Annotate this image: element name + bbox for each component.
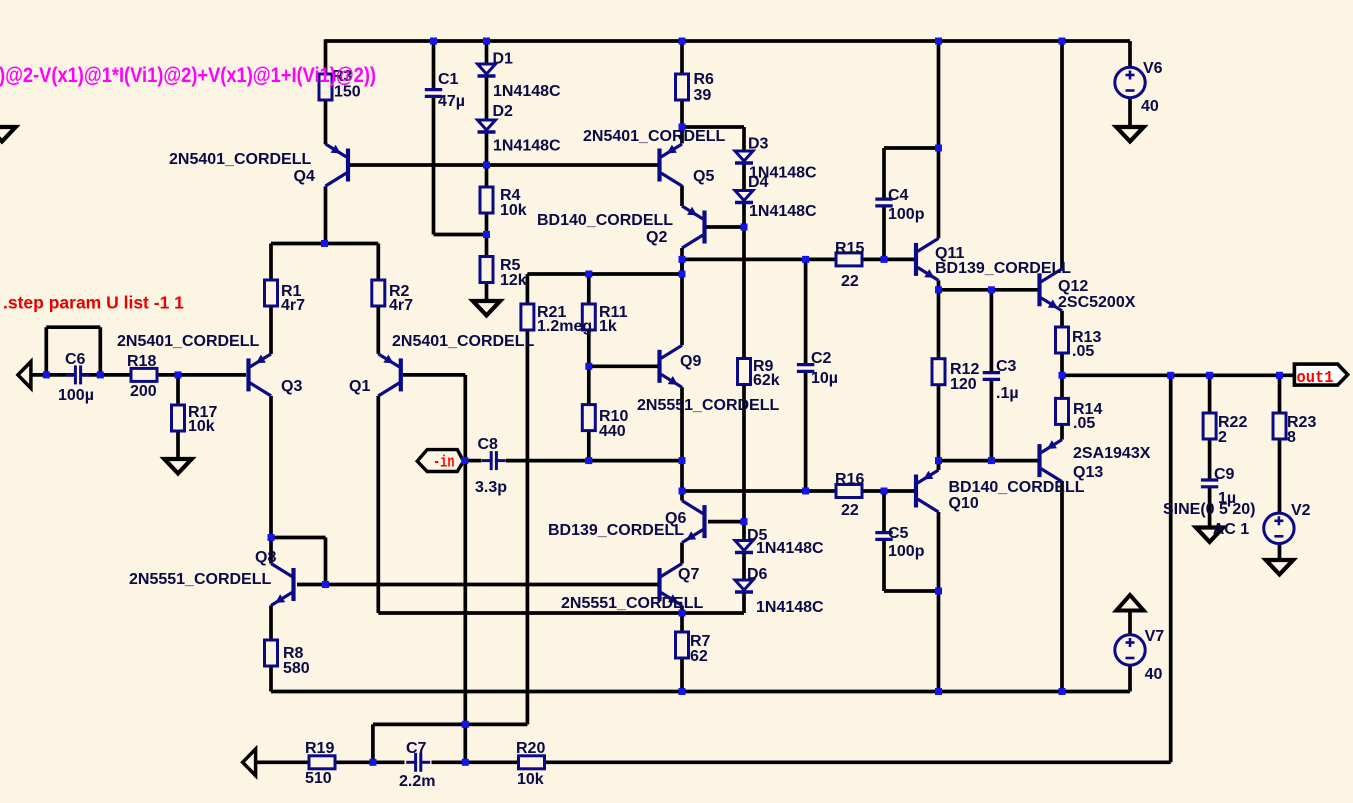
svg-text:.05: .05 [1073, 415, 1095, 432]
svg-text:D3: D3 [748, 136, 769, 153]
svg-text:Q7: Q7 [678, 566, 699, 583]
svg-text:2N5401_CORDELL: 2N5401_CORDELL [117, 333, 260, 350]
svg-text:2SC5200X: 2SC5200X [1058, 294, 1136, 311]
svg-text:100p: 100p [888, 543, 925, 560]
svg-text:2N5551_CORDELL: 2N5551_CORDELL [561, 595, 704, 612]
svg-text:2: 2 [1218, 429, 1227, 446]
svg-text:Q12: Q12 [1058, 278, 1088, 295]
svg-text:580: 580 [283, 660, 310, 677]
svg-text:)@2-V(x1)@1*I(Vi1)@2)+V(x1)@1+: )@2-V(x1)@1*I(Vi1)@2)+V(x1)@1+I(Vi1)@2)) [0, 64, 376, 87]
svg-text:2N5401_CORDELL: 2N5401_CORDELL [169, 151, 312, 168]
svg-text:2.2m: 2.2m [399, 773, 435, 790]
svg-text:1N4148C: 1N4148C [493, 83, 561, 100]
svg-text:R20: R20 [516, 740, 545, 757]
svg-text:10k: 10k [188, 418, 215, 435]
svg-text:22: 22 [841, 502, 859, 519]
svg-text:R16: R16 [835, 471, 864, 488]
svg-text:.1µ: .1µ [996, 385, 1019, 402]
svg-text:1N4148C: 1N4148C [756, 599, 824, 616]
svg-text:Q2: Q2 [646, 229, 667, 246]
svg-text:Q10: Q10 [949, 495, 979, 512]
svg-text:200: 200 [130, 383, 157, 400]
svg-text:440: 440 [599, 423, 626, 440]
svg-text:2N5551_CORDELL: 2N5551_CORDELL [637, 397, 780, 414]
svg-text:10k: 10k [500, 202, 527, 219]
svg-text:100p: 100p [888, 206, 925, 223]
svg-text:12k: 12k [500, 272, 527, 289]
svg-text:1N4148C: 1N4148C [756, 540, 824, 557]
svg-text:100µ: 100µ [58, 387, 94, 404]
svg-text:Q4: Q4 [294, 168, 315, 185]
svg-text:39: 39 [694, 87, 712, 104]
svg-text:Q3: Q3 [281, 378, 302, 395]
svg-text:BD139_CORDELL: BD139_CORDELL [935, 260, 1071, 277]
svg-text:3.3p: 3.3p [475, 479, 507, 496]
svg-text:2N5401_CORDELL: 2N5401_CORDELL [583, 128, 726, 145]
svg-text:C2: C2 [811, 350, 832, 367]
svg-text:BD140_CORDELL: BD140_CORDELL [949, 479, 1085, 496]
svg-text:D4: D4 [748, 174, 769, 191]
svg-text:R18: R18 [127, 353, 156, 370]
svg-text:40: 40 [1145, 666, 1163, 683]
svg-text:C7: C7 [406, 740, 427, 757]
svg-text:2N5401_CORDELL: 2N5401_CORDELL [392, 333, 535, 350]
svg-text:1N4148C: 1N4148C [749, 203, 817, 220]
svg-text:62k: 62k [753, 372, 780, 389]
svg-text:R6: R6 [694, 71, 715, 88]
svg-text:SINE(0 5 20): SINE(0 5 20) [1163, 501, 1255, 518]
svg-text:Q9: Q9 [680, 353, 701, 370]
svg-text:V6: V6 [1143, 60, 1163, 77]
svg-text:10µ: 10µ [811, 370, 838, 387]
svg-text:4r7: 4r7 [389, 297, 413, 314]
svg-text:C5: C5 [888, 525, 909, 542]
svg-text:22: 22 [841, 273, 859, 290]
svg-text:2SA1943X: 2SA1943X [1073, 445, 1151, 462]
svg-text:out1: out1 [1297, 369, 1334, 388]
svg-text:1N4148C: 1N4148C [493, 138, 561, 155]
svg-text:2N5551_CORDELL: 2N5551_CORDELL [129, 571, 272, 588]
svg-text:-in: -in [433, 454, 455, 473]
svg-text:D6: D6 [747, 566, 768, 583]
svg-text:R19: R19 [305, 740, 334, 757]
svg-text:AC 1: AC 1 [1213, 521, 1250, 538]
svg-text:BD139_CORDELL: BD139_CORDELL [548, 522, 684, 539]
svg-text:Q1: Q1 [349, 378, 370, 395]
svg-text:V7: V7 [1145, 628, 1165, 645]
svg-text:8: 8 [1287, 429, 1296, 446]
svg-text:47µ: 47µ [438, 93, 465, 110]
svg-text:40: 40 [1141, 98, 1159, 115]
svg-text:1.2meg: 1.2meg [537, 318, 592, 335]
svg-text:C6: C6 [65, 351, 86, 368]
svg-text:510: 510 [305, 770, 332, 787]
svg-text:C8: C8 [478, 436, 499, 453]
svg-text:120: 120 [950, 376, 977, 393]
svg-text:C4: C4 [888, 187, 909, 204]
svg-text:BD140_CORDELL: BD140_CORDELL [537, 212, 673, 229]
svg-text:Q5: Q5 [693, 168, 714, 185]
svg-text:4r7: 4r7 [281, 297, 305, 314]
svg-text:C1: C1 [438, 71, 459, 88]
svg-text:C3: C3 [996, 358, 1017, 375]
svg-text:1k: 1k [599, 318, 617, 335]
svg-text:62: 62 [690, 648, 708, 665]
svg-text:V2: V2 [1291, 502, 1311, 519]
svg-text:.step param U list -1 1: .step param U list -1 1 [3, 293, 184, 313]
svg-text:C9: C9 [1214, 466, 1235, 483]
svg-text:10k: 10k [517, 771, 544, 788]
svg-text:D1: D1 [493, 51, 514, 68]
svg-text:.05: .05 [1072, 343, 1094, 360]
svg-text:Q8: Q8 [255, 549, 276, 566]
svg-text:D2: D2 [493, 103, 514, 120]
svg-text:R15: R15 [835, 240, 864, 257]
